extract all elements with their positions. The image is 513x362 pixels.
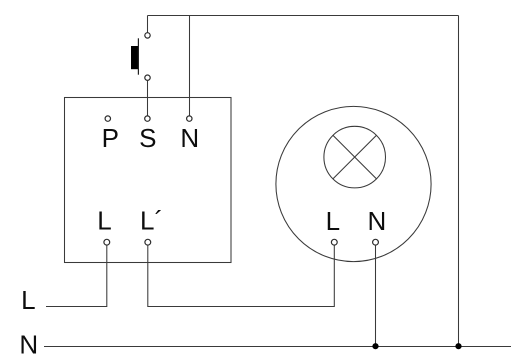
- junction dot: right drop on N line: [455, 343, 461, 349]
- terminal L circle (box): [104, 239, 110, 245]
- lamp symbol X stroke 2: [333, 135, 377, 179]
- pushbutton switch S1 actuator stem: [137, 38, 139, 74]
- wire: drop from top bus to terminal N of control unit: [189, 16, 191, 117]
- lamp terminal L circle: [331, 239, 337, 245]
- lamp fixture outline circle: [276, 106, 431, 261]
- svg-text:N: N: [368, 206, 387, 236]
- wire: N supply line: [44, 346, 511, 348]
- lamp symbol X stroke 1: [333, 135, 377, 179]
- svg-text:S: S: [139, 123, 156, 153]
- terminal L&#180; circle (box): [145, 239, 151, 245]
- svg-text:L: L: [326, 206, 340, 236]
- junction dot: lamp N wire on N line: [372, 343, 378, 349]
- wire: switch bottom terminal to terminal S of control unit: [147, 80, 149, 116]
- svg-text:P: P: [102, 123, 119, 153]
- wire: L supply line to box terminal L: [46, 245, 107, 306]
- svg-text:L´: L´: [140, 206, 163, 236]
- svg-text:N: N: [180, 123, 199, 153]
- terminal N circle: [187, 116, 192, 121]
- wire: lamp terminal N to N supply line: [375, 245, 377, 346]
- terminal P circle: [105, 116, 110, 121]
- svg-text:L: L: [21, 285, 35, 315]
- pushbutton switch S1 actuator button: [131, 46, 138, 69]
- terminal S circle: [145, 116, 150, 121]
- lamp terminal N circle: [373, 239, 379, 245]
- wire: top supply bus: [148, 15, 459, 17]
- wire: drop from top bus to switch top terminal: [147, 16, 149, 33]
- pushbutton switch S1 bottom contact circle: [145, 75, 150, 80]
- svg-text:N: N: [19, 329, 38, 359]
- svg-text:L: L: [97, 206, 111, 236]
- wire: right vertical drop from top bus to N line: [458, 16, 460, 347]
- pushbutton switch S1 top contact circle: [145, 33, 150, 38]
- wire: box terminal L&#180; to lamp terminal L: [148, 245, 334, 306]
- lamp symbol circle: [324, 126, 386, 188]
- control unit box: [65, 98, 232, 263]
